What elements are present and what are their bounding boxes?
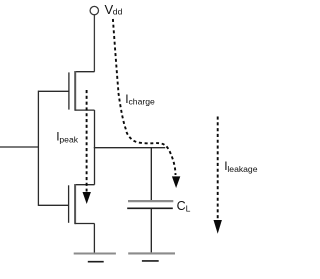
power terminal Vdd [90, 6, 98, 14]
wire Vdd to PMOS source [93, 15, 95, 72]
ground at capacitor [128, 252, 175, 254]
wire capacitor to ground [150, 209, 152, 252]
input stem wire [37, 91, 39, 206]
wire to NMOS gate [38, 204, 68, 206]
input wire [0, 146, 38, 148]
wire PMOS drain to output node [94, 110, 96, 148]
capacitor CL [128, 200, 173, 202]
current arrow Icharge [113, 19, 180, 188]
svg-text:C: C [177, 199, 186, 213]
wire to PMOS gate [38, 90, 69, 92]
wire output node to capacitor [150, 148, 152, 200]
current arrow Ipeak [83, 90, 91, 204]
ground at NMOS source [74, 252, 116, 254]
transistor PMOS [69, 71, 95, 111]
svg-text:charge: charge [129, 97, 155, 107]
svg-text:peak: peak [59, 134, 78, 144]
wire NMOS source to ground [93, 224, 95, 253]
output wire [94, 147, 165, 149]
wire output node to NMOS drain [94, 147, 96, 185]
current arrow Ileakage [214, 117, 222, 234]
svg-text:dd: dd [113, 7, 123, 17]
svg-text:leakage: leakage [227, 164, 257, 174]
transistor NMOS [69, 184, 95, 224]
svg-text:L: L [186, 203, 191, 213]
